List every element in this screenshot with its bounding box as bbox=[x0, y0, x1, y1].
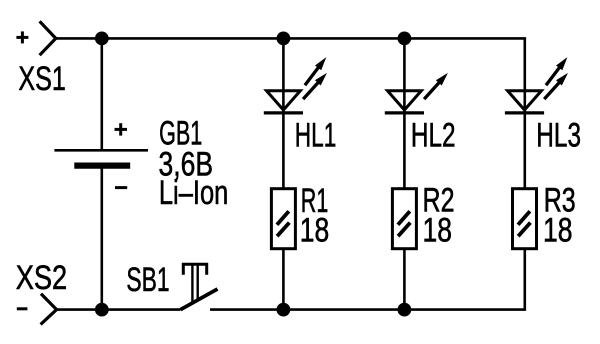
svg-text:Li–Ion: Li–Ion bbox=[159, 174, 228, 212]
svg-text:HL1: HL1 bbox=[295, 116, 337, 154]
svg-text:SB1: SB1 bbox=[126, 261, 169, 299]
svg-text:18: 18 bbox=[300, 212, 330, 250]
svg-text:HL3: HL3 bbox=[536, 116, 581, 154]
svg-text:HL2: HL2 bbox=[411, 116, 456, 154]
svg-text:XS2: XS2 bbox=[16, 259, 67, 297]
svg-text:18: 18 bbox=[423, 212, 453, 250]
svg-text:XS1: XS1 bbox=[18, 60, 66, 98]
svg-text:18: 18 bbox=[543, 212, 573, 250]
